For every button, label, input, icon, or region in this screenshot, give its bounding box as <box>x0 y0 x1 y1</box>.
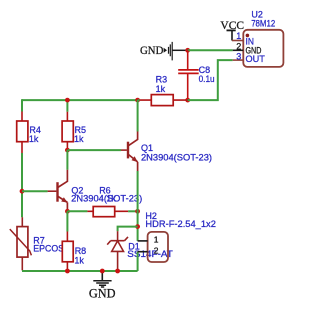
wire second rail upper <box>66 99 68 112</box>
svg-text:2N3904(SOT-23): 2N3904(SOT-23) <box>141 153 212 163</box>
resistor R6 <box>87 186 128 217</box>
wire D1 branch <box>118 227 138 232</box>
ground symbol bottom GND <box>89 271 116 300</box>
wire R6 right <box>128 210 138 212</box>
wire H2 pin2 to bottom rail <box>137 252 139 271</box>
pin 3 U2 OUT <box>233 52 265 66</box>
wire Q2 collector <box>66 150 68 170</box>
svg-text:1k: 1k <box>29 134 39 144</box>
node junction R6 / emitter rail <box>135 209 140 214</box>
node junction top rail / R3 / Q1 collector <box>135 98 140 103</box>
wire Q2 base <box>22 190 48 192</box>
node junction top rail / R5 <box>65 98 70 103</box>
transistor Q1 <box>121 132 212 172</box>
node junction D1 bottom rail <box>115 269 120 274</box>
resistor R3 <box>138 75 188 106</box>
pin 1 U2 IN <box>232 31 254 47</box>
svg-text:1k: 1k <box>106 194 116 204</box>
header H2 <box>145 211 216 262</box>
svg-text:SS14F-AT: SS14F-AT <box>127 249 173 259</box>
capacitor C8 <box>178 50 214 100</box>
resistor R5 <box>62 112 86 150</box>
resistor R4 <box>17 112 41 154</box>
svg-text:2: 2 <box>236 42 241 52</box>
node junction R3 / C8 / OUT <box>185 98 190 103</box>
svg-text:0.1u: 0.1u <box>199 74 215 84</box>
svg-text:VCC: VCC <box>220 20 244 32</box>
wire Q1 collector <box>137 100 139 131</box>
node junction GND bottom rail <box>100 269 105 274</box>
pin 2 U2 GND <box>233 42 262 57</box>
wire bottom rail <box>22 270 138 272</box>
svg-text:78M12: 78M12 <box>251 18 275 28</box>
svg-text:OUT: OUT <box>246 54 265 65</box>
resistor R7 EPCOS thermistor <box>10 217 64 270</box>
wire emitter to R8 <box>66 211 68 231</box>
node junction emitter rail / D1 <box>135 224 140 229</box>
wire Q1 emitter rail <box>137 171 139 241</box>
svg-text:1: 1 <box>154 235 159 245</box>
pin 1 H2 <box>138 235 159 245</box>
svg-text:HDR-F-2.54_1x2: HDR-F-2.54_1x2 <box>145 219 216 229</box>
resistor R8 <box>62 232 86 272</box>
wire GND to U2 pin2 <box>188 49 233 51</box>
node junction R5 bottom / Q1 base / Q2 collector <box>65 148 70 153</box>
ground symbol top GND <box>140 42 188 61</box>
node junction GND / C8 / U2 pin2 <box>185 48 190 53</box>
wire Q1 base <box>67 149 121 151</box>
svg-text:1k: 1k <box>74 134 84 144</box>
pin 2 H2 <box>138 246 159 256</box>
transistor Q2 <box>48 170 143 212</box>
node junction R8 bottom rail <box>65 269 70 274</box>
svg-text:1k: 1k <box>74 255 84 265</box>
svg-text:1: 1 <box>236 31 241 41</box>
wire left rail middle <box>21 153 23 217</box>
wire top rail <box>22 99 138 101</box>
wire U2 OUT <box>188 60 233 100</box>
power symbol VCC <box>220 20 244 41</box>
svg-text:1k: 1k <box>156 84 166 94</box>
diode D1 SS14F-AT schottky <box>107 231 173 271</box>
node junction left rail / Q2 base <box>20 189 25 194</box>
svg-text:3: 3 <box>236 52 241 62</box>
regulator U2 78M12 <box>243 10 283 67</box>
svg-text:2: 2 <box>154 246 159 256</box>
wire left rail upper <box>21 99 23 111</box>
svg-text:Q1: Q1 <box>141 143 153 153</box>
svg-text:GND: GND <box>89 286 116 300</box>
svg-text:GND: GND <box>140 45 163 57</box>
svg-text:EPCOS: EPCOS <box>33 244 64 254</box>
wire R6 left <box>67 210 87 212</box>
node junction Q2 emitter / R6 / R8 <box>65 209 70 214</box>
